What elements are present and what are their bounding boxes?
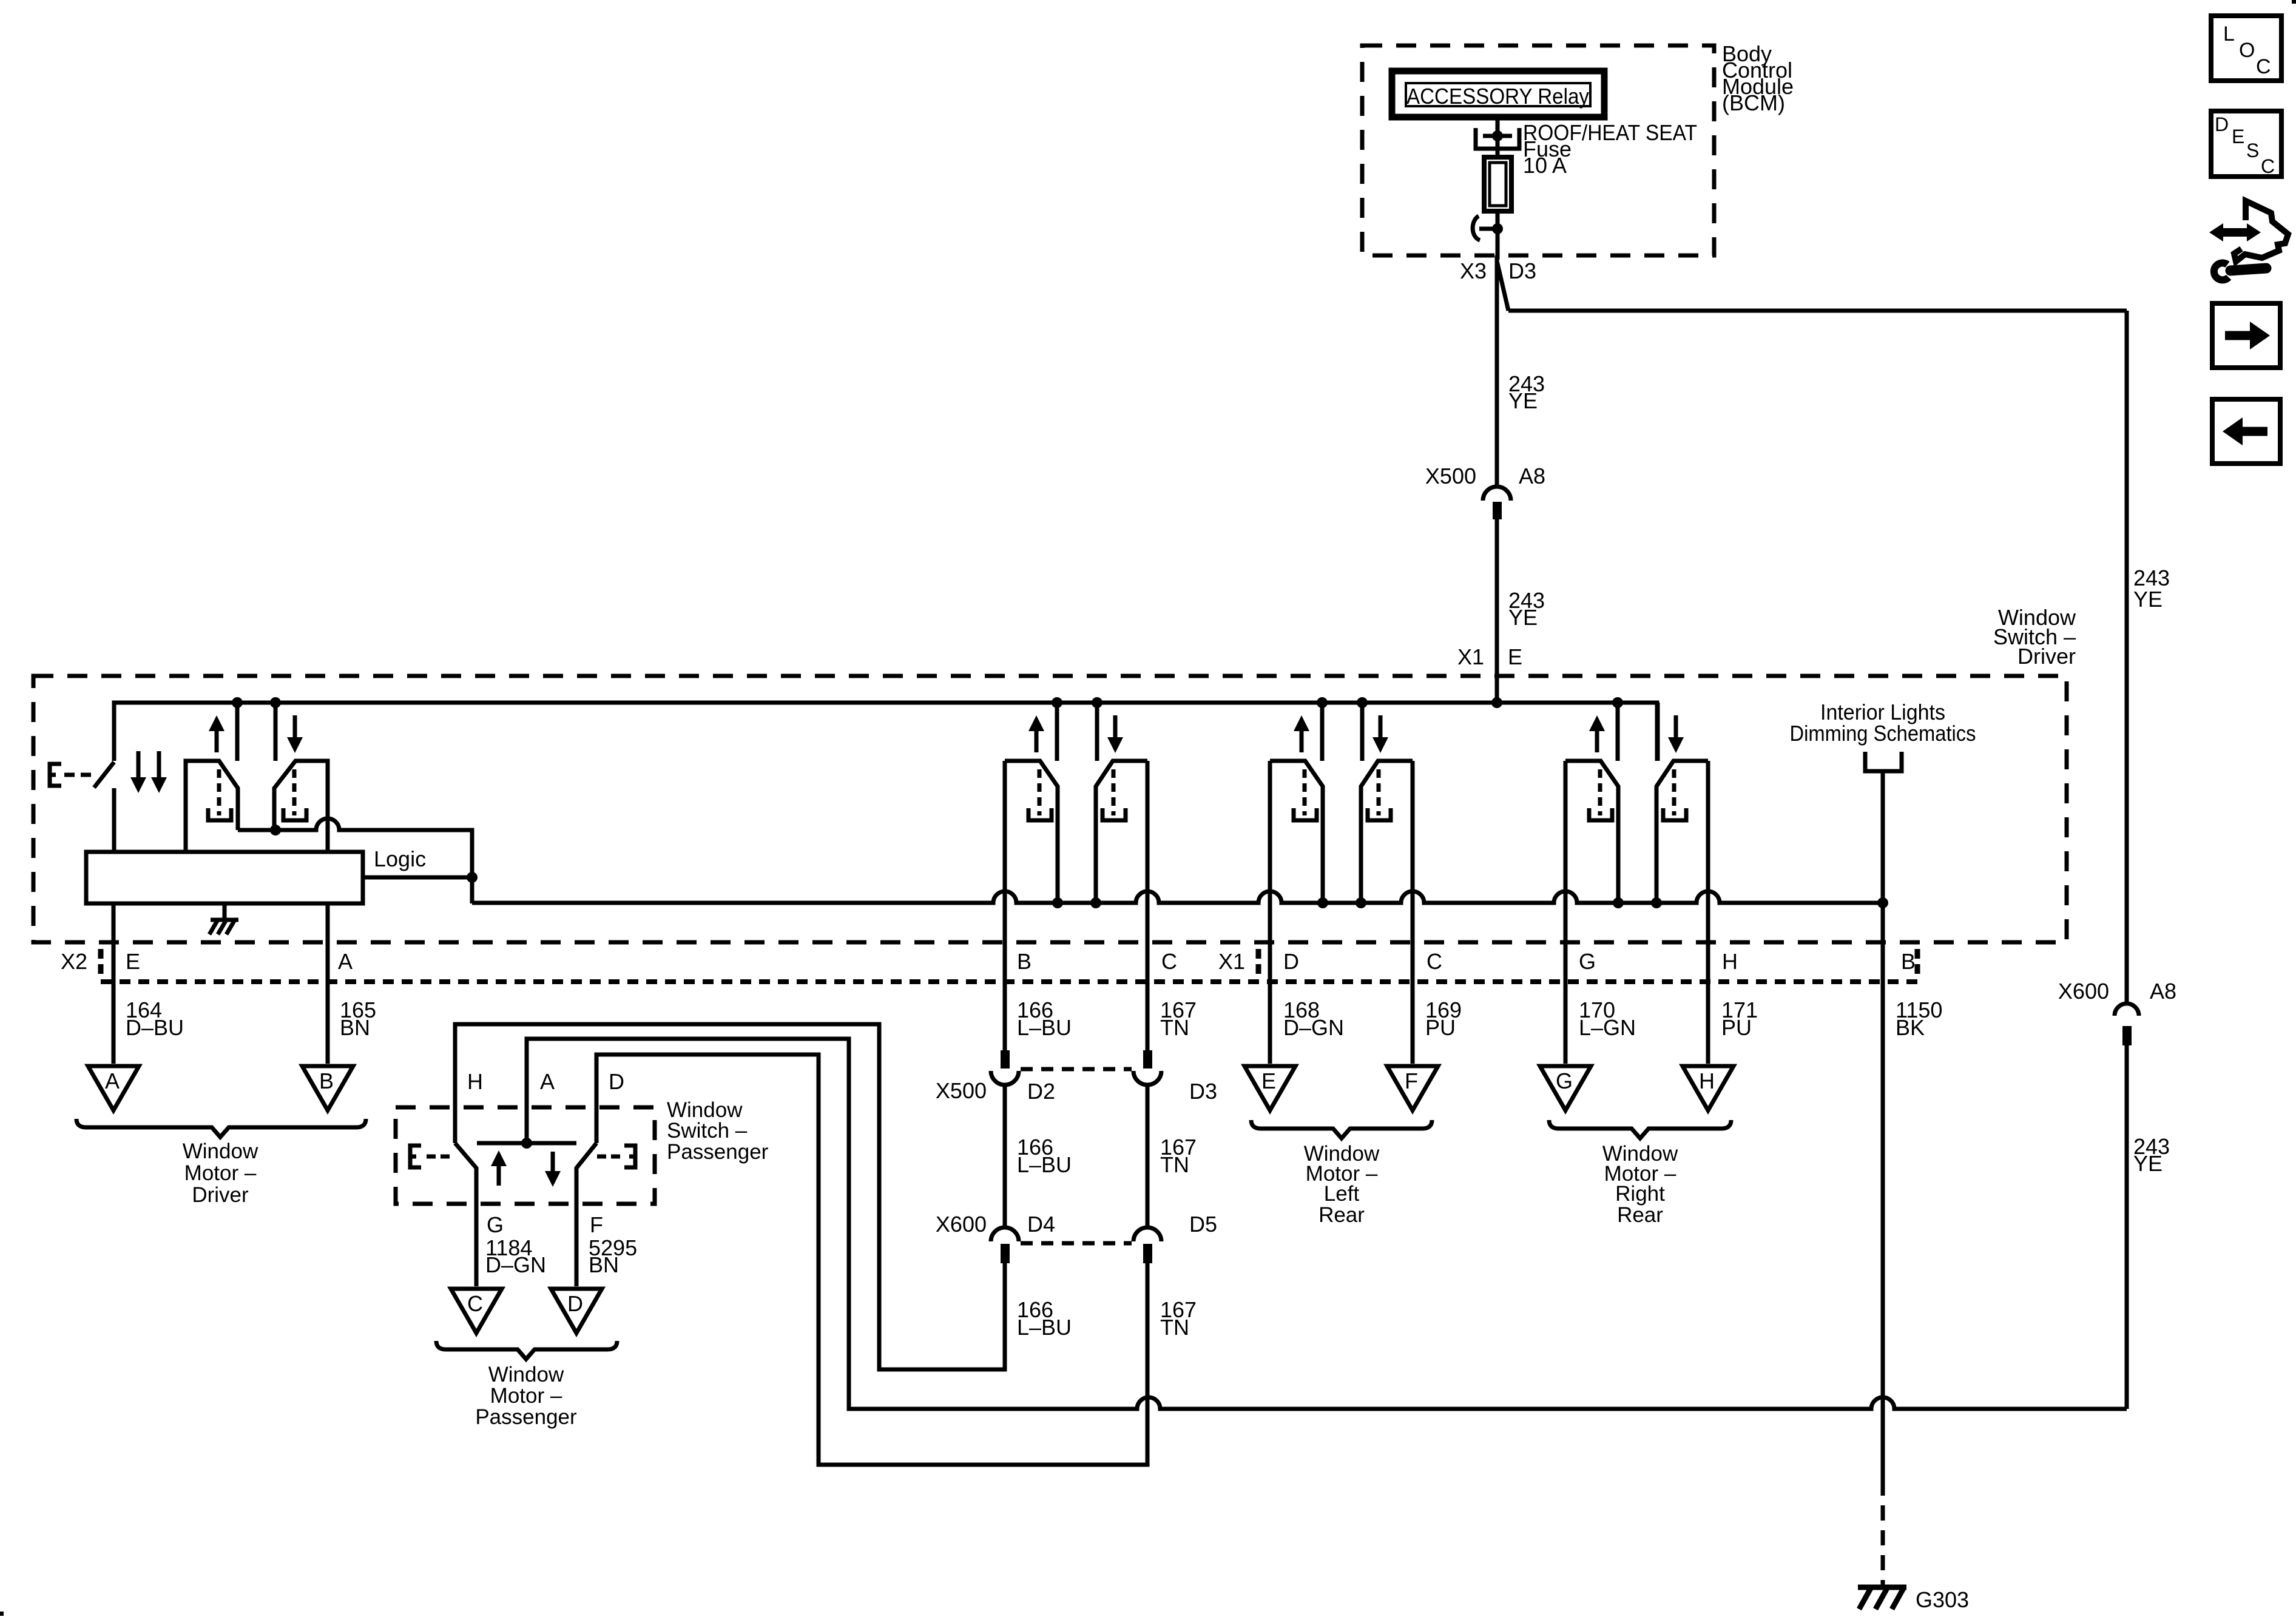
terminal H [1683,1066,1734,1110]
wire 243 YE right vertical [2125,311,2129,1004]
node: bottom logic bus [472,891,1883,903]
down arrow [293,715,297,740]
svg-text:TN: TN [1160,1152,1189,1177]
svg-text:G: G [487,1212,504,1237]
svg-text:E: E [2232,126,2244,147]
svg-text:YE: YE [1508,388,1538,413]
terminal F [1387,1066,1438,1110]
svg-text:X600: X600 [936,1212,987,1237]
svg-text:B: B [1901,949,1916,974]
svg-text:Motor –: Motor – [184,1161,257,1185]
inner bus to logic [238,819,472,903]
svg-text:Logic: Logic [374,846,426,871]
contact up [1003,761,1007,1050]
contact up funnel (H to G) [455,1143,476,1286]
wire 243 YE from BCM down [1495,255,1499,486]
svg-text:Passenger: Passenger [667,1140,769,1164]
contact up (driver) [186,761,238,852]
wire fuse to terminal [1496,210,1500,260]
svg-text:TN: TN [1160,1015,1189,1040]
svg-text:X500: X500 [1425,464,1476,488]
svg-text:Motor –: Motor – [490,1384,562,1408]
svg-text:L–BU: L–BU [1017,1315,1072,1340]
svg-text:A: A [540,1069,555,1094]
svg-text:X600: X600 [2058,979,2109,1004]
terminal G [1540,1066,1591,1110]
svg-text:D: D [2215,113,2229,135]
wire 243 YE top horizontal to right side [1508,309,2127,313]
lock glyph right [624,1146,635,1167]
svg-text:TN: TN [1160,1315,1189,1340]
svg-text:Dimming Schematics: Dimming Schematics [1790,721,1976,746]
terminal D [551,1289,602,1333]
svg-text:C: C [467,1291,483,1316]
wire relay to fuse [1496,120,1500,158]
svg-text:D–GN: D–GN [485,1252,546,1277]
terminal C [451,1289,502,1333]
svg-text:E: E [1261,1068,1276,1093]
corner mark top-right [2292,0,2296,4]
wire 170 L-GN [1564,903,1568,1064]
svg-text:Right: Right [1615,1182,1665,1206]
svg-text:X500: X500 [936,1078,987,1103]
svg-text:Rear: Rear [1617,1203,1663,1227]
svg-text:A: A [338,949,353,974]
svg-text:A8: A8 [1519,464,1545,488]
wire 243 YE continues down [2125,1045,2129,1409]
logic output [363,876,472,880]
svg-text:Switch –: Switch – [667,1119,748,1143]
terminal A [88,1066,139,1110]
wire 168 D-GN [1268,903,1272,1064]
svg-text:L: L [2223,22,2235,46]
svg-text:L–BU: L–BU [1017,1015,1072,1040]
connector X600 link [1021,1241,1132,1246]
brace Window Motor Passenger [436,1341,617,1359]
svg-text:D: D [1283,949,1299,974]
svg-text:D: D [609,1069,624,1094]
svg-text:D3: D3 [1189,1079,1217,1104]
connector X500 link [1021,1067,1132,1072]
svg-text:O: O [2239,39,2255,62]
svg-text:BN: BN [340,1015,370,1040]
ground G303 [1858,1585,1906,1590]
svg-text:YE: YE [1508,605,1538,630]
svg-text:X1: X1 [1457,644,1484,669]
svg-text:X2: X2 [61,949,87,974]
svg-text:S: S [2246,140,2259,161]
up arrow [497,1164,501,1186]
svg-text:D4: D4 [1027,1212,1055,1237]
icon arrow-right box [2212,303,2280,368]
svg-text:E: E [126,949,140,974]
svg-text:D2: D2 [1027,1079,1055,1104]
svg-text:X1: X1 [1218,949,1245,974]
svg-text:Driver: Driver [2017,644,2076,669]
connector face dotted line [101,979,1922,984]
wire 243 YE to window switch [1495,519,1499,703]
corner mark bottom-left [0,1612,4,1616]
ground (logic internal) [223,903,227,920]
wire 1150 BK [1881,903,1885,1480]
contact down (driver) [274,761,328,852]
svg-text:H: H [467,1069,483,1094]
stub wires [235,703,240,761]
icon adjustable component + wrench [2209,201,2288,280]
passenger window switch contacts (pair B/C) [1055,703,1059,761]
wire 167 to X500-D3 [1146,786,1150,1050]
svg-text:ACCESSORY Relay: ACCESSORY Relay [1406,84,1589,109]
svg-text:PU: PU [1721,1015,1752,1040]
brace Window Motor Left Rear [1251,1120,1432,1138]
wire lever to logic [112,788,116,852]
svg-text:(BCM): (BCM) [1722,90,1785,115]
svg-text:C: C [2261,155,2275,177]
brace Window Motor Driver [76,1119,366,1137]
svg-text:Left: Left [1324,1182,1360,1206]
svg-text:Window: Window [488,1363,564,1386]
svg-text:Driver: Driver [192,1183,249,1207]
svg-text:10 A: 10 A [1523,153,1567,178]
Body Control Module (BCM) dashed box [1362,46,1714,255]
wire 243 YE branch slant [1497,261,1508,311]
svg-text:C: C [1427,949,1442,974]
relay output contact [1476,128,1519,149]
icon arrow-left box [2212,399,2280,464]
fuse ROOF/HEAT SEAT 10A [1484,157,1511,211]
switch S-driver-lock lever E [94,762,114,788]
svg-text:H: H [1699,1068,1715,1093]
svg-text:D–BU: D–BU [126,1015,184,1040]
svg-text:G: G [1556,1068,1573,1093]
right rear window switch contacts (pair G/H) [1616,703,1620,761]
svg-text:X3: X3 [1460,258,1487,283]
contact down [1706,761,1710,1064]
connector X600-A8 inline [2115,1004,2139,1016]
svg-text:L–GN: L–GN [1579,1015,1636,1040]
svg-text:B: B [1017,949,1032,974]
wire 167 TN mid [1146,1085,1150,1227]
svg-text:Passenger: Passenger [475,1405,577,1429]
contact down funnel (D to F) [576,1143,596,1286]
connector X600-D4 [991,1227,1019,1241]
connector X500-A8 inline [1483,487,1511,501]
svg-text:A: A [105,1068,120,1093]
svg-text:D–GN: D–GN [1283,1015,1344,1040]
contact up [1564,761,1568,1064]
double down arrows (auto-down) [137,751,141,780]
up arrow [215,729,219,752]
icon LOC box [2211,16,2281,81]
wire 167 route to passenger pin D [596,1055,1147,1465]
terminal clip [1473,216,1480,240]
connector X500-D2 [1001,1050,1010,1068]
contact down [1146,761,1150,1050]
wire 171 PU [1706,903,1710,1064]
svg-text:G303: G303 [1916,1587,1969,1612]
left rear window switch contacts (pair D/C) [1320,703,1325,761]
svg-text:F: F [1405,1068,1418,1093]
down arrow [551,1152,555,1173]
svg-text:C: C [1161,949,1177,974]
svg-text:YE: YE [2133,1151,2163,1176]
svg-text:Window: Window [183,1139,258,1163]
contact up [1268,761,1272,1064]
wire 166 route to passenger pin H [455,1024,1005,1369]
icon DESC box [2211,111,2281,177]
wire 166 L-BU mid [1003,1085,1007,1227]
svg-text:H: H [1722,949,1738,974]
svg-text:PU: PU [1425,1015,1456,1040]
wire 166 to X500-D2 [1003,786,1007,1050]
contact down [1411,761,1415,1064]
wire 1150 dashed to ground [1881,1480,1885,1585]
svg-text:C: C [2256,55,2271,78]
connector X600-D5 [1133,1227,1161,1241]
svg-text:F: F [590,1212,603,1237]
wire 243 YE bottom run to passenger switch pin A [527,1039,2127,1409]
wire 165 BN [326,903,330,1064]
brace Window Motor Right Rear [1549,1120,1731,1138]
Window Switch Driver dashed box [33,676,2067,942]
common feed bar [477,1141,576,1146]
svg-text:D: D [567,1291,583,1316]
wire 164 D-BU [112,903,116,1064]
svg-text:BK: BK [1896,1015,1925,1040]
svg-text:A8: A8 [2150,979,2176,1004]
terminal B [302,1066,353,1110]
terminal E [1244,1066,1295,1110]
svg-text:G: G [1579,949,1596,974]
logic box U1 [86,852,363,903]
svg-text:E: E [1508,644,1522,669]
svg-text:YE: YE [2133,587,2163,612]
connector X500-D3 [1143,1050,1152,1068]
lock glyph E left [410,1146,421,1167]
svg-text:D5: D5 [1189,1212,1217,1237]
svg-text:L–BU: L–BU [1017,1152,1072,1177]
svg-text:D3: D3 [1508,258,1536,283]
wire 169 PU [1411,903,1415,1064]
svg-text:Rear: Rear [1319,1203,1365,1227]
relay K: ACCESSORY Relay box [1392,71,1604,117]
svg-text:BN: BN [589,1252,619,1277]
svg-text:B: B [319,1068,334,1093]
node: top bus 243 YE inside switch [114,703,1657,761]
Window Switch Passenger dashed box [396,1107,655,1204]
